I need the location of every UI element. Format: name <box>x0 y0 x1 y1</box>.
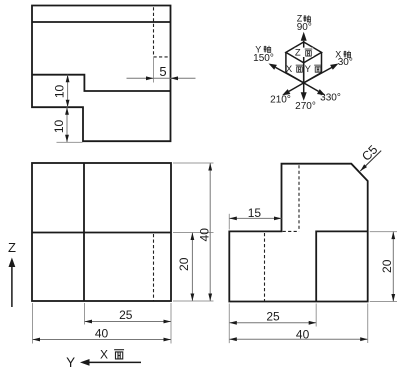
svg-text:30°: 30° <box>338 57 353 68</box>
dimension 40 right <box>209 163 211 301</box>
svg-text:X: X <box>100 347 108 361</box>
dimension 20 right <box>191 233 193 302</box>
front view horizontal edge <box>32 232 171 234</box>
dimension 25 <box>229 322 316 324</box>
axis 330 arrow <box>304 83 319 92</box>
dimension 15 <box>229 217 281 219</box>
svg-text:40: 40 <box>197 228 211 242</box>
extension lines right <box>370 232 397 302</box>
hidden lines <box>298 165 300 231</box>
svg-text:270°: 270° <box>295 101 316 112</box>
front view vertical edge <box>83 163 85 301</box>
dimension 10 lower <box>66 107 68 142</box>
extension for 15 <box>228 214 230 230</box>
iso cube <box>286 42 322 63</box>
axis 30 arrow <box>304 67 332 83</box>
svg-text:C5: C5 <box>359 143 380 164</box>
dimension 40 <box>229 338 367 340</box>
svg-text:10: 10 <box>53 85 67 99</box>
svg-text:40: 40 <box>296 327 310 341</box>
svg-text:25: 25 <box>266 310 280 324</box>
Z axis arrow <box>11 267 13 308</box>
side view step edges <box>316 231 368 301</box>
svg-text:Y: Y <box>66 355 75 370</box>
svg-text:330°: 330° <box>320 93 341 104</box>
chamfer edge line <box>32 21 171 23</box>
svg-text:X: X <box>286 64 293 75</box>
front view outline <box>32 163 171 301</box>
svg-text:40: 40 <box>95 326 109 340</box>
Z MEN face label <box>295 48 313 57</box>
top view outline <box>32 6 171 142</box>
dimension 10 upper <box>67 75 69 108</box>
extension lines right <box>173 163 214 301</box>
hidden line <box>153 234 155 301</box>
svg-text:90°: 90° <box>297 22 312 33</box>
extension line for 5 <box>153 57 155 83</box>
axis 270 arrow <box>303 83 305 93</box>
side view outline <box>229 164 367 302</box>
svg-text:Y: Y <box>305 64 312 75</box>
hidden line horizontal <box>154 56 170 58</box>
svg-text:150°: 150° <box>253 53 274 64</box>
dimension 40 bottom <box>33 339 172 341</box>
svg-text:25: 25 <box>119 308 133 322</box>
svg-text:210°: 210° <box>270 95 291 106</box>
extension lines bottom <box>33 303 172 344</box>
hidden line vertical <box>153 7 155 57</box>
svg-text:Z: Z <box>8 240 16 255</box>
dimension 25 bottom <box>85 321 172 323</box>
svg-text:20: 20 <box>380 259 394 273</box>
axis 90 arrow <box>303 41 305 83</box>
svg-text:10: 10 <box>52 120 66 134</box>
axis 210 arrow <box>289 83 304 92</box>
step edge <box>32 75 171 91</box>
extension lines bottom <box>229 304 367 344</box>
svg-text:15: 15 <box>248 206 262 220</box>
C5 leader <box>360 151 381 171</box>
dimension 5 line <box>127 77 196 79</box>
axis 150 arrow <box>276 67 304 83</box>
extension line bottom left <box>57 141 83 143</box>
svg-text:5: 5 <box>159 64 166 79</box>
svg-text:20: 20 <box>177 257 191 271</box>
svg-text:Z: Z <box>295 48 301 59</box>
Y axis arrow <box>89 361 142 363</box>
dimension 20 right <box>392 232 394 302</box>
